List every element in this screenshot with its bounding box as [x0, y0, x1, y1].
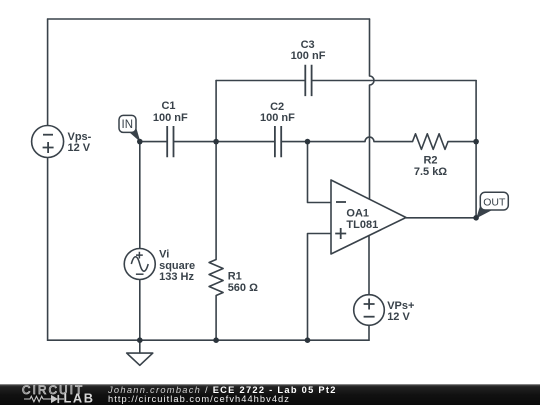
- wire non-inverting input from op-amp down to bottom rail: [308, 234, 332, 341]
- wire node A vertical to R1 top: [215, 142, 217, 260]
- capacitor C1: [167, 126, 173, 157]
- junction IN node: [137, 139, 143, 145]
- wire C3 left segment: [216, 80, 305, 82]
- wire op-amp output to output node: [406, 217, 476, 219]
- svg-text:Vi: Vi: [159, 249, 169, 261]
- svg-text:IN: IN: [122, 119, 134, 131]
- svg-text:R1: R1: [228, 271, 242, 283]
- voltage source Vi (square 133 Hz): [124, 249, 155, 280]
- wire node A vertical upper (junction to C3): [215, 81, 217, 142]
- footer bar: [0, 384, 540, 405]
- svg-text:C3: C3: [301, 39, 315, 51]
- node IN flag: [119, 115, 140, 142]
- svg-text:LAB: LAB: [64, 391, 95, 405]
- wire Vi bottom terminal: [139, 280, 141, 341]
- CircuitLab logo diode: [43, 398, 51, 400]
- junction ground node: [137, 337, 143, 343]
- wire right drop x=369.5 with hop over C3 wire, to op-amp V- pin: [370, 19, 375, 199]
- svg-text:100 nF: 100 nF: [291, 50, 326, 62]
- capacitor C3: [305, 65, 311, 96]
- junction non-inverting bottom node: [305, 337, 311, 343]
- voltage source VPs+: [354, 295, 385, 326]
- capacitor C2: [275, 126, 281, 157]
- svg-text:R2: R2: [423, 154, 437, 166]
- junction node A: [213, 139, 219, 145]
- junction output node: [473, 215, 479, 221]
- wire C1 to C2 through node A: [174, 141, 274, 143]
- resistor R1: [209, 260, 223, 296]
- svg-text:12 V: 12 V: [68, 142, 91, 154]
- svg-text:100 nF: 100 nF: [153, 112, 188, 124]
- svg-text:7.5 kΩ: 7.5 kΩ: [414, 166, 447, 178]
- junction R1 bottom node: [213, 337, 219, 343]
- wire inverting node to R2 with hop over right drop: [308, 137, 413, 142]
- wire top rail from Vps- to right drop: [48, 18, 370, 20]
- svg-text:TL081: TL081: [346, 219, 378, 231]
- resistor R2: [413, 134, 449, 150]
- wire Vi top terminal: [139, 142, 141, 249]
- wire inverting input from node to op-amp: [308, 142, 332, 203]
- wire R2 right to feedback node: [448, 141, 476, 143]
- CircuitLab logo resistor squiggle: [24, 396, 43, 401]
- svg-text:VPs+: VPs+: [387, 300, 414, 312]
- svg-text:square: square: [159, 260, 195, 272]
- svg-text:OUT: OUT: [483, 196, 506, 208]
- wire op-amp V+ pin down to VPs+: [368, 236, 370, 295]
- wire IN node to C1: [140, 141, 167, 143]
- wire C2 to inverting node: [282, 141, 308, 143]
- wire right rail (C3/R2 feedback) down to output node: [475, 81, 477, 218]
- voltage source Vps-: [32, 126, 64, 158]
- svg-text:Vps-: Vps-: [68, 131, 92, 143]
- junction inverting node: [305, 139, 311, 145]
- svg-text:133 Hz: 133 Hz: [159, 271, 194, 283]
- svg-text:http://circuitlab.com/cefvh44h: http://circuitlab.com/cefvh44hbv4dz: [108, 394, 290, 404]
- wire left rail upper (Vps- top terminal): [47, 19, 49, 126]
- wire ground stub: [139, 340, 141, 353]
- op-amp OA1 TL081: [331, 180, 406, 254]
- wire VPs+ bottom terminal: [368, 325, 370, 340]
- svg-text:C1: C1: [161, 100, 175, 112]
- junction feedback node: [473, 139, 479, 145]
- ground: [127, 353, 153, 365]
- svg-text:OA1: OA1: [346, 208, 369, 220]
- node OUT flag: [476, 192, 508, 218]
- wire left rail lower (Vps- bottom to bottom rail): [47, 158, 49, 341]
- wire bottom rail: [48, 339, 369, 341]
- wire C3 right segment to right rail: [312, 80, 476, 82]
- wire R1 bottom to bottom rail: [215, 296, 217, 341]
- svg-text:560 Ω: 560 Ω: [228, 282, 258, 294]
- svg-text:100 nF: 100 nF: [260, 112, 295, 124]
- svg-text:12 V: 12 V: [387, 311, 410, 323]
